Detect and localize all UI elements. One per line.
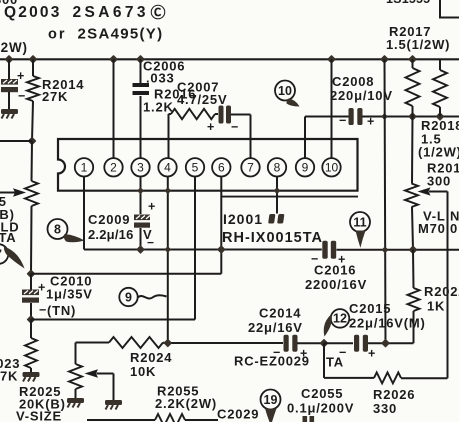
junction V-LIN bottom on bus	[410, 246, 417, 253]
IC pin 7 circle	[241, 158, 259, 176]
label C2055 0.1u/200V	[287, 386, 354, 416]
IC pin 8 circle	[268, 158, 286, 176]
capacitor C2014	[273, 335, 308, 361]
partial label 1S1555 diode cut at top	[386, 0, 430, 6]
wire bus right of C2016	[337, 249, 459, 251]
wire bus3 horizontal to pin5	[31, 176, 195, 320]
callout 11 connector	[350, 212, 370, 248]
label C2014 22u/16V	[248, 306, 303, 336]
junction R2018 bottom	[437, 113, 444, 120]
svg-text:+: +	[368, 347, 376, 361]
wire pot to junction A	[30, 206, 33, 274]
callout 8 connector	[48, 219, 85, 242]
svg-text:2SA495(Y): 2SA495(Y)	[78, 26, 164, 43]
junction pin4 on IC edge	[165, 188, 170, 193]
pin 3 bottom stub	[140, 177, 142, 215]
junction pin3 on IC edge	[138, 188, 143, 193]
label V-LIN M700	[418, 209, 459, 237]
svg-text:TA: TA	[326, 355, 344, 370]
wire long vertical from rail to C2015 node	[385, 59, 386, 343]
label C2016 2200/16V	[305, 263, 367, 293]
label R2014 27K	[42, 77, 84, 104]
wire R2014 node down to pot	[31, 141, 34, 181]
wire V-LIN wiper vertical long	[447, 192, 449, 379]
callout 10 connector	[275, 81, 300, 107]
IC pin 4 circle	[158, 158, 176, 176]
svg-text:0.1μ/200V: 0.1μ/200V	[287, 401, 354, 416]
wire stub to left edge	[0, 140, 32, 142]
wire C2015 to node	[368, 342, 386, 344]
pin 6 bottom wire	[220, 177, 222, 274]
junction R2014 bottom	[29, 138, 36, 145]
label C2008 220u/10V	[330, 74, 393, 103]
svg-text:12: 12	[333, 312, 347, 326]
junction C2014 node	[321, 340, 328, 347]
label R2019 300	[427, 161, 459, 189]
label RH-IX0015TA part number	[222, 230, 323, 246]
svg-text:C2016: C2016	[314, 263, 356, 278]
svg-text:300: 300	[427, 174, 451, 189]
svg-text:10: 10	[325, 161, 339, 175]
svg-text:2: 2	[110, 161, 117, 175]
svg-text:RH-IX0015TA: RH-IX0015TA	[222, 230, 323, 246]
svg-text:(1/2W): (1/2W)	[0, 40, 28, 55]
junction at x384 crossing	[382, 114, 387, 119]
svg-text:27K: 27K	[0, 369, 18, 384]
svg-text:R2024: R2024	[130, 350, 172, 365]
label I2001 with bypass cap symbol	[223, 211, 284, 227]
svg-text:8: 8	[54, 222, 61, 236]
label C2010 value	[46, 274, 93, 319]
capacitor C2007	[207, 106, 239, 135]
junction R2024 right	[164, 340, 171, 347]
junction C2010 bottom	[28, 316, 35, 323]
pin 4 bottom wire long	[167, 177, 169, 344]
potentiometer V-HOLD (cut)	[25, 181, 38, 206]
svg-text:19: 19	[264, 393, 278, 407]
svg-text:7: 7	[247, 161, 254, 175]
junction on top rail x=140.5	[137, 56, 144, 63]
pin 7 top stub	[250, 115, 252, 159]
svg-text:2SA673: 2SA673	[73, 4, 149, 21]
pin 5 bottom stub	[194, 177, 196, 183]
ground far-left	[1, 109, 18, 119]
partial text 300 cut at top edge	[0, 0, 18, 7]
label R2016 1.2K	[143, 87, 196, 115]
wire bottom to R2055	[87, 419, 155, 421]
capacitor C2009 on pin3 line	[134, 200, 156, 250]
svg-text:C2015: C2015	[349, 301, 391, 316]
wire R2017 node down to V-LIN pot	[411, 117, 414, 184]
svg-text:or: or	[48, 27, 67, 43]
wire under-IC stub from pin6 area	[221, 196, 358, 198]
resistor R2022 1K	[386, 250, 420, 343]
svg-text:M70: M70	[418, 221, 446, 236]
svg-text:22μ/16V: 22μ/16V	[248, 320, 303, 335]
svg-text:(TN): (TN)	[47, 303, 76, 318]
wire bus2 horizontal	[31, 273, 221, 275]
svg-text:1.5(1/2W): 1.5(1/2W)	[386, 37, 450, 52]
svg-text:R2022: R2022	[424, 284, 459, 299]
label RC-EZ0029TA	[234, 354, 344, 370]
label C2009 value	[88, 212, 152, 242]
potentiometer R2025	[69, 364, 82, 398]
svg-text:8: 8	[274, 161, 281, 175]
svg-text:0: 0	[450, 221, 458, 236]
junction C2015 node	[382, 340, 389, 347]
label alternate type 2SA495	[48, 26, 163, 43]
callout 9 connector	[119, 288, 166, 306]
wire pin1 down and corner	[84, 191, 322, 250]
IC pin 6 circle	[212, 158, 230, 176]
junction pin8 on IC edge	[275, 188, 280, 193]
pin 3 top stub	[140, 96, 142, 158]
svg-text:4.7/25V: 4.7/25V	[177, 92, 227, 107]
pin 1 stub	[83, 177, 85, 191]
svg-text:10: 10	[278, 84, 292, 98]
label R2055 2.2K(2W)	[155, 384, 217, 412]
partial label (1/2W) cut at left edge	[0, 40, 28, 55]
svg-text:−: −	[339, 114, 347, 128]
svg-text:10K: 10K	[130, 364, 156, 379]
junction on top rail x=9	[6, 56, 13, 63]
IC pin 5 circle	[186, 158, 204, 176]
IC pin 9 circle	[296, 158, 314, 176]
resistor R2024	[76, 337, 168, 364]
svg-text:22μ/16V(M): 22μ/16V(M)	[349, 316, 426, 331]
wiper arrow R2025	[85, 369, 114, 400]
wire C2014 to node	[297, 342, 324, 344]
resistor R2026	[324, 343, 448, 383]
svg-text:+: +	[207, 120, 215, 134]
label Q2003 transistor type	[4, 4, 166, 22]
junction C2009 bus	[137, 246, 144, 253]
wire C2008 to R2017 node	[362, 116, 459, 118]
svg-text:27K: 27K	[42, 89, 68, 104]
svg-text:330: 330	[373, 401, 397, 416]
junction on top rail x=331.5	[328, 56, 335, 63]
wire R2024 node to C2014	[168, 342, 283, 344]
junction pin6 bus crossing	[218, 246, 225, 253]
pin 2 wire from rail	[113, 59, 115, 158]
callout 7 connector (cut at edge)	[0, 244, 24, 268]
svg-text:1S1555: 1S1555	[386, 0, 430, 6]
svg-text:C2014: C2014	[259, 306, 301, 321]
label R2025 20K(B) V-SIZE	[16, 384, 66, 422]
IC pin 2 circle	[104, 158, 122, 176]
label C2015 22u/16V(M)	[349, 301, 426, 331]
svg-text:.033: .033	[146, 71, 175, 86]
pin 10 wire from rail	[331, 59, 333, 158]
label R2018 1.5 (1/2W)	[418, 118, 459, 160]
svg-text:11: 11	[353, 215, 366, 229]
svg-text:Ⓒ: Ⓒ	[151, 4, 167, 22]
svg-text:9: 9	[302, 161, 309, 175]
resistor R2055 (cut at bottom)	[155, 414, 218, 422]
wire top supply rail	[0, 58, 459, 60]
svg-text:5: 5	[192, 161, 199, 175]
resistor R2017	[406, 59, 420, 116]
wire C2007 to pin7	[231, 115, 251, 121]
wire node to C2015	[324, 342, 353, 344]
svg-text:I2001: I2001	[223, 211, 263, 227]
svg-text:1.2K: 1.2K	[143, 100, 174, 115]
IC pin 1 circle	[75, 158, 93, 176]
ground R2025	[67, 398, 84, 408]
label R2017 1.5(1/2W)	[386, 24, 450, 52]
ground R2023	[23, 372, 40, 382]
potentiometer R2019 V-LIN	[405, 184, 418, 208]
label R2026 330	[373, 387, 415, 416]
svg-text:C2008: C2008	[332, 74, 374, 89]
resistor R2014	[27, 59, 39, 141]
svg-text:V-SIZE: V-SIZE	[16, 409, 62, 422]
op-amp U1 IC I2001 body outline with notch	[58, 139, 358, 191]
junction on top rail x=412.5	[409, 56, 416, 63]
label C2007 4.7/25V	[177, 80, 227, 108]
label R2022 1K	[424, 284, 459, 314]
callout 12 connector	[324, 309, 350, 336]
svg-text:2200/16V: 2200/16V	[305, 277, 367, 292]
pin 4 top stub	[168, 114, 170, 158]
junction on top rail x=33	[30, 56, 37, 63]
svg-text:V: V	[143, 227, 152, 242]
pin 8 bottom stub	[276, 177, 278, 214]
junction node A	[28, 270, 35, 277]
label C2029	[217, 407, 259, 422]
svg-text:C2009: C2009	[88, 212, 130, 227]
svg-text:C2029: C2029	[217, 407, 259, 422]
svg-text:+: +	[38, 281, 46, 295]
junction on top rail x=113.5	[110, 56, 117, 63]
ground R2025 wiper	[105, 400, 122, 410]
svg-text:1μ/35V: 1μ/35V	[46, 287, 93, 302]
svg-text:2.2μ/16: 2.2μ/16	[88, 227, 134, 242]
svg-text:9: 9	[125, 290, 132, 304]
wiper arrow V-HOLD	[0, 188, 26, 197]
label C2006 .033	[143, 59, 185, 86]
svg-text:7: 7	[0, 248, 3, 262]
callout 19 connector	[261, 390, 281, 422]
capacitor electrolytic far-left (cut)	[1, 69, 26, 103]
svg-text:−: −	[18, 89, 26, 103]
svg-text:+: +	[17, 69, 25, 83]
resistor R2016	[169, 109, 219, 128]
resistor R2018	[433, 59, 447, 116]
svg-text:TA: TA	[0, 230, 16, 245]
svg-text:300: 300	[0, 0, 18, 7]
wire pin9 to C2008	[305, 116, 349, 118]
capacitor C2010	[22, 274, 47, 320]
svg-text:6: 6	[218, 161, 225, 175]
component box corner top right	[440, 0, 459, 18]
junction pin4 bus crossing	[165, 247, 170, 252]
resistor R2023 (cut)	[25, 320, 37, 373]
svg-text:R2026: R2026	[373, 387, 415, 402]
capacitor C2015	[339, 335, 376, 361]
junction C2008 node	[409, 113, 416, 120]
junction x385 bus crossing	[383, 247, 388, 252]
capacitor C2006	[133, 59, 150, 95]
svg-text:−: −	[39, 303, 47, 317]
svg-text:1K: 1K	[427, 299, 445, 314]
svg-text:3: 3	[137, 161, 144, 175]
svg-text:220μ/10V: 220μ/10V	[330, 88, 393, 103]
svg-text:2.2K(2W): 2.2K(2W)	[155, 396, 217, 411]
svg-text:+: +	[148, 200, 156, 214]
wiper arrow V-LIN	[418, 187, 448, 195]
wire cap to ground	[8, 92, 10, 109]
svg-text:RC-EZ0029: RC-EZ0029	[234, 354, 310, 369]
junction on top rail x=384.5	[381, 56, 388, 63]
capacitor C2008	[339, 108, 375, 129]
svg-text:1: 1	[81, 161, 88, 175]
svg-text:C2055: C2055	[301, 386, 343, 401]
wire V-LIN pot bottom to bus	[412, 207, 413, 250]
IC pin 3 circle	[131, 158, 149, 176]
wire left branch down	[8, 59, 10, 80]
svg-text:4: 4	[164, 161, 171, 175]
partial labels V-HOLD pot cut at left edge	[0, 194, 19, 245]
capacitor C2055 (cut at bottom)	[303, 416, 315, 422]
IC pin 10 circle	[322, 158, 340, 176]
partial label R2023 cut at left	[0, 356, 20, 384]
pin 9 top stub	[304, 117, 306, 159]
capacitor C2016 in series on bus	[311, 241, 346, 267]
svg-text:−: −	[231, 120, 239, 134]
label R2024 10K	[130, 350, 172, 379]
svg-text:(1/2W): (1/2W)	[418, 145, 459, 160]
